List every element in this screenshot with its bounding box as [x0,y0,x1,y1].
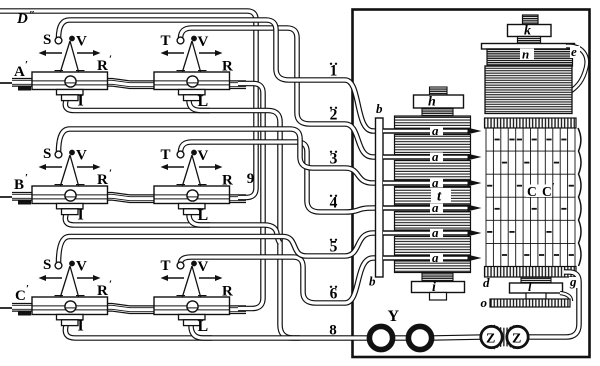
svg-text:V: V [76,148,87,164]
clamp k [508,15,552,45]
svg-text:5: 5 [330,239,338,256]
svg-text:o: o [481,295,488,310]
svg-text:e: e [571,44,577,59]
L stub row B [189,215,210,226]
svg-text:a: a [432,250,439,265]
toothed bar o [490,299,570,307]
svg-text:S: S [43,257,51,273]
svg-text:8: 8 [329,323,337,339]
svg-text:b: b [369,274,376,289]
wire from I/L of row B merging down [65,215,280,244]
wire 8 from Y to Z [432,337,484,338]
svg-text:9: 9 [247,171,255,187]
svg-text:I: I [78,207,84,224]
wire 8 between Y rings [393,335,410,341]
wire lead 5 from S row C lead 5 [59,233,382,264]
wire lead 2 from T row A lead 2 [181,28,382,157]
svg-text:R: R [222,173,233,189]
svg-text:h: h [428,95,436,110]
rod C' [0,305,246,315]
svg-text:S: S [43,146,51,162]
svg-text:a: a [432,149,439,164]
svg-text:I: I [78,93,84,110]
svg-text:′: ′ [109,279,112,291]
svg-text:C: C [527,184,537,199]
wire lead 6 from T row C lead 6 [181,257,382,303]
label t [431,188,451,205]
vibrator device T-row-B [154,150,230,215]
svg-text:′: ′ [109,54,112,66]
L stub row C [191,326,212,339]
svg-text:V: V [198,259,209,275]
svg-text:3: 3 [330,151,338,168]
wire lead 3 from S row B lead 3 [59,129,382,183]
svg-text:V: V [76,259,87,275]
svg-text:k: k [524,24,531,39]
wire e [566,46,587,91]
condenser top bar [485,118,577,128]
svg-text:R: R [97,58,108,74]
svg-text:R: R [222,59,233,75]
svg-text:″: ″ [29,9,35,21]
svg-text:4: 4 [330,195,338,212]
svg-text:a: a [432,225,439,240]
svg-text:V: V [76,34,87,50]
spool l [510,277,563,299]
svg-text:L: L [198,93,209,110]
spool h [414,87,464,116]
svg-text:V: V [198,34,209,50]
svg-text:2: 2 [330,107,338,124]
plate n [482,44,575,67]
svg-text:R: R [97,172,108,188]
svg-text:d: d [483,275,490,290]
vibrator device S-row-A [32,36,108,101]
spindles a (6) [383,128,482,262]
wire 8 from I/L of row C to Y [65,326,368,339]
svg-text:Y: Y [388,308,400,325]
svg-text:i: i [432,280,436,295]
wire from Z Z up right side to g [527,272,579,337]
svg-text:1: 1 [330,63,338,80]
svg-text:6: 6 [330,286,338,303]
svg-text:l: l [528,279,532,294]
svg-text:I: I [78,318,84,335]
vibrator device S-row-C [32,261,108,326]
rod A' [0,80,246,90]
rod B' [0,194,246,204]
bar b [376,118,384,277]
svg-text:′: ′ [109,168,112,180]
spool i [412,273,465,301]
L stub row A [189,101,210,111]
svg-text:Z: Z [486,332,495,347]
svg-text:B: B [14,177,24,193]
svg-text:L: L [198,318,209,335]
svg-text:T: T [161,147,171,163]
svg-text:′: ′ [25,59,28,71]
svg-text:a: a [432,123,439,138]
svg-text:R: R [222,284,233,300]
coupler Z Z [481,325,528,350]
svg-text:g: g [569,274,577,289]
svg-text:R: R [97,283,108,299]
svg-text:b: b [376,101,383,116]
wire rod A down to rod C [238,84,263,309]
binding posts Y [369,326,431,349]
wire lead 4 from T row B lead 4 [181,142,382,212]
svg-text:n: n [522,47,529,62]
svg-text:A: A [14,64,25,80]
svg-text:V: V [198,148,209,164]
labels a on spindles [430,123,443,265]
wire lead 1 from S row A lead 1 [59,20,382,131]
svg-text:Z: Z [512,332,521,347]
condenser grid C C [486,128,575,267]
svg-text:T: T [161,258,171,274]
condenser wavy right edge [578,128,581,266]
svg-text:C: C [15,288,26,304]
svg-text:S: S [43,32,51,48]
svg-text:T: T [161,33,171,49]
vibrator device T-row-A [154,36,230,101]
condenser bottom bar d-g [485,267,577,278]
wire D'' to rod B (vertical 9) [0,11,256,198]
hook wire l to o [560,293,571,301]
wire from I/L of row A down to wire 8 [65,101,300,339]
coil stack t bands [395,116,471,273]
solenoid coil [485,66,572,114]
enclosure box [353,10,590,358]
svg-text:′: ′ [26,283,29,295]
svg-text:′: ′ [552,182,555,193]
svg-text:′: ′ [25,172,28,184]
svg-text:L: L [198,207,209,224]
svg-text:D: D [16,11,28,27]
vibrator device T-row-C [154,261,230,326]
vibrator device S-row-B [32,150,108,215]
svg-text:C: C [542,184,552,199]
